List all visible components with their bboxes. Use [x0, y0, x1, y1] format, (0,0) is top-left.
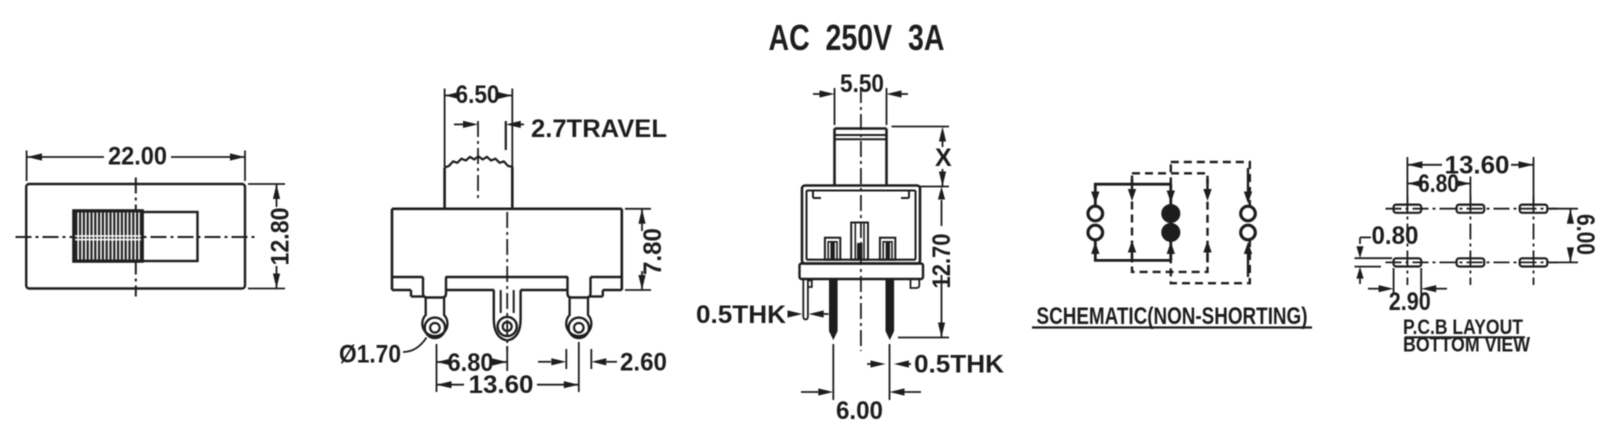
dimension 2.7 TRAVEL: [454, 115, 667, 143]
side view: left contact: [825, 238, 840, 260]
dimension 5.50: [813, 70, 908, 125]
side view: back row pin (0.5 thick): [886, 279, 893, 339]
dimension 12.70: [898, 187, 956, 338]
side view: centreline (dash-dot): [860, 87, 862, 351]
caption: SCHEMATIC(NON-SHORTING): [1032, 303, 1312, 330]
pcb layout: column 2 centreline: [1469, 197, 1471, 286]
schematic: common contact 2 (filled dot): [1162, 224, 1180, 242]
label 0.5THK left (foot thickness): [696, 301, 829, 329]
schematic: terminal B1 (open circle): [1241, 206, 1256, 221]
svg-text:Ø1.70: Ø1.70: [339, 341, 401, 369]
label 0.5THK right (pin thickness): [867, 351, 1004, 379]
pcb layout: pad 3 (slot hole): [1520, 205, 1548, 213]
svg-text:13.60: 13.60: [469, 371, 534, 399]
front view: centre boss around middle terminal: [494, 290, 521, 341]
terminal 1 eyelet (front view left pin): [422, 298, 447, 338]
caption: P.C.B LAYOUT: [1403, 316, 1525, 339]
schematic: terminal A1 (open circle): [1088, 206, 1103, 221]
svg-text:22.00: 22.00: [108, 143, 167, 171]
side view: actuator stem / middle contact: [851, 223, 868, 260]
svg-text:0.5THK: 0.5THK: [696, 301, 786, 329]
schematic: wire from left terminals to common (top): [1095, 184, 1171, 205]
top view: knurled knob grip with hatch: [74, 211, 143, 262]
dimension 0.80 (slot width): [1355, 222, 1419, 284]
front view: body centreline (dash-dot): [506, 212, 508, 351]
side view: body outline: [802, 186, 920, 264]
schematic: common contact 1 (filled dot): [1162, 205, 1180, 223]
svg-text:2.7TRAVEL: 2.7TRAVEL: [531, 115, 667, 143]
dimension 6.50: [445, 81, 513, 167]
svg-text:AC 250V 3A: AC 250V 3A: [769, 17, 945, 58]
dimension 6.80 (pcb): [1407, 170, 1470, 203]
top view: horizontal centerline: [16, 236, 258, 238]
schematic: terminal B2 (open circle): [1241, 225, 1256, 240]
svg-text:6.80: 6.80: [1418, 170, 1459, 198]
front view: knob centreline (dash-dot): [477, 121, 479, 202]
schematic: contact pin marks column 2: [1131, 179, 1133, 192]
terminal 2 eyelet (front view middle pin): [498, 290, 517, 336]
svg-text:5.50: 5.50: [840, 70, 884, 98]
schematic: housing outline position 2 (dashed): [1171, 162, 1250, 283]
front view: travel end position mark: [505, 121, 507, 150]
side view: left foot leg (0.5 thick): [803, 279, 812, 320]
terminal 3 eyelet (front view right pin): [566, 298, 591, 338]
svg-text:0.80: 0.80: [1372, 222, 1419, 250]
pcb layout: pad 5 (slot hole): [1457, 258, 1485, 266]
svg-text:6.00: 6.00: [836, 397, 883, 425]
svg-text:BOTTOM VIEW: BOTTOM VIEW: [1403, 334, 1530, 357]
schematic: wire from left terminals to common (bottom): [1095, 241, 1171, 260]
svg-text:6.50: 6.50: [456, 81, 500, 109]
pcb layout: pad 6 (slot hole): [1520, 258, 1548, 266]
schematic: terminal A2 (open circle): [1088, 225, 1103, 240]
dimension leader Ø1.70 (pin hole): [339, 338, 427, 369]
svg-text:6.00: 6.00: [1571, 214, 1599, 255]
dimension 13.60 (front view): [437, 342, 579, 399]
schematic: contact pin marks column 1: [1094, 186, 1096, 195]
front view: bottom shoulder line: [392, 276, 622, 278]
side view: interior shelf: [807, 259, 916, 261]
pcb layout: row 1 centreline: [1386, 208, 1558, 210]
dimension X (knob height): [892, 127, 952, 187]
svg-text:SCHEMATIC(NON-SHORTING): SCHEMATIC(NON-SHORTING): [1037, 303, 1308, 330]
dimension 6.80 (front view): [437, 344, 508, 377]
pcb layout: column 3 centreline: [1533, 197, 1535, 286]
dimension 6.00 (side view pin spacing): [801, 344, 921, 425]
front view: bottom face line with corner blocks and notches: [392, 290, 622, 297]
front view: knob with serrated crown: [445, 156, 513, 167]
pcb layout: pad 2 (slot hole): [1457, 205, 1485, 213]
pcb layout: column 1 centreline: [1406, 197, 1408, 286]
dimension 2.90 (slot length): [1368, 268, 1447, 316]
schematic: contact pin marks column 5: [1247, 168, 1249, 195]
schematic: contact pin marks column 3: [1170, 186, 1172, 194]
top view: switch body outline: [26, 184, 245, 289]
side view: actuator knob: [835, 129, 887, 186]
front view: body outline: [392, 209, 622, 290]
top view: knob slider body: [143, 212, 198, 261]
svg-text:7.80: 7.80: [639, 228, 667, 275]
dimension 13.60 (pcb): [1407, 152, 1533, 204]
dimension 2.60 (pin width): [538, 349, 667, 377]
schematic: contact pin marks column 4: [1206, 179, 1208, 192]
side view: base flange: [800, 264, 924, 280]
front view: right mounting tab: [568, 277, 591, 298]
pcb layout: pad 1 (slot hole): [1394, 205, 1422, 213]
pcb layout: pad 4 (slot hole): [1394, 258, 1422, 266]
dimension 6.00 (pcb row spacing): [1550, 209, 1600, 263]
svg-text:12.80: 12.80: [267, 208, 295, 266]
svg-text:2.90: 2.90: [1389, 288, 1431, 316]
svg-text:0.5THK: 0.5THK: [914, 351, 1004, 379]
side view: front row pin (0.5 thick): [830, 279, 837, 339]
top view: vertical centerline: [135, 178, 137, 297]
side view: right foot: [911, 279, 920, 288]
pcb layout: row 2 centreline: [1386, 261, 1558, 263]
dimension 7.80: [625, 209, 667, 290]
side view: right contact: [880, 238, 895, 260]
dimension 12.80: [248, 184, 295, 289]
svg-text:2.60: 2.60: [620, 349, 667, 377]
schematic: housing outline position 1 (dashed): [1132, 173, 1208, 272]
schematic: common column wire: [1169, 184, 1172, 260]
front view: left mounting tab: [423, 277, 446, 298]
svg-text:X: X: [935, 144, 952, 172]
dimension 22.00: [27, 143, 245, 182]
